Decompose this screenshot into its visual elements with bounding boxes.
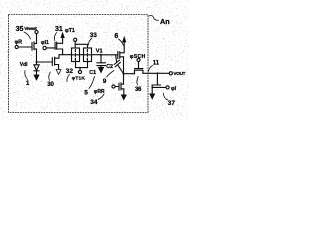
leader squiggle to An [149, 16, 159, 21]
svg-text:φT1K: φT1K [72, 76, 86, 82]
supply arrow (31 drain) [61, 33, 64, 37]
transistor 6 (source follower) [117, 52, 119, 59]
svg-text:9: 9 [103, 78, 107, 85]
transistor 31 (gate phi-I1, drain to supply arrow) [43, 46, 46, 49]
svg-text:An: An [160, 17, 170, 26]
svg-text:6: 6 [114, 33, 118, 40]
dashed cell border An [9, 15, 149, 113]
svg-text:φI: φI [171, 86, 177, 92]
svg-text:C2: C2 [106, 64, 113, 70]
capacitor C1 [100, 55, 102, 63]
svg-text:V1: V1 [96, 49, 103, 55]
phi-T1K terminal [79, 68, 81, 71]
svg-text:Vreset: Vreset [24, 26, 37, 31]
svg-text:C1: C1 [89, 70, 96, 76]
transistor 37 (load, gate phi-I) [156, 73, 158, 84]
svg-text:33: 33 [90, 32, 98, 39]
svg-text:37: 37 [168, 100, 176, 107]
leader squiggle 35 [24, 32, 31, 39]
ground (C1) [99, 68, 104, 73]
VOUT terminal [169, 72, 172, 75]
ground (transistor 30 source) [56, 70, 61, 75]
storage box 33 [84, 48, 92, 62]
transistor 30 (amp, gate from Vdi) [51, 58, 53, 66]
capacitor C2 (coupling, diagonal) [116, 55, 117, 62]
svg-text:φT1: φT1 [65, 28, 75, 34]
wire Vdi rail [37, 61, 53, 63]
wire to box 33 top [75, 44, 87, 48]
svg-text:φRR: φRR [94, 89, 105, 95]
svg-text:32: 32 [66, 68, 74, 75]
wire boxes bottom rail [76, 62, 88, 68]
wire to VOUT [143, 72, 169, 74]
svg-text:φR: φR [15, 40, 23, 46]
svg-text:36: 36 [135, 87, 142, 93]
wire output rail [124, 73, 135, 75]
svg-text:Vdi: Vdi [20, 62, 28, 68]
ground (photodiode) [34, 75, 38, 79]
transistor 35 (reset, gate phi-R) [15, 45, 18, 48]
node junction (6 source / 34 / rail) [122, 73, 124, 75]
svg-text:30: 30 [47, 82, 54, 88]
svg-text:11: 11 [153, 61, 160, 67]
photodiode 1 [36, 62, 38, 65]
wire V1 to amp gate [101, 54, 118, 56]
ground (34) [122, 95, 126, 99]
ground (37) [150, 93, 155, 95]
svg-text:φI1: φI1 [41, 40, 49, 46]
transistor 34 (clamp, gate phi-RR) [112, 85, 115, 88]
svg-text:34: 34 [90, 99, 98, 106]
svg-text:35: 35 [16, 26, 24, 33]
svg-text:31: 31 [55, 26, 63, 33]
node branch to 37 [156, 72, 158, 74]
Vreset terminal [35, 30, 38, 33]
svg-text:VOUT: VOUT [173, 71, 185, 76]
storage box 32 [72, 48, 80, 62]
svg-text:5: 5 [84, 89, 88, 96]
wire rail 30/31 to V1 [59, 54, 72, 56]
supply arrow (6 drain) [123, 38, 126, 42]
